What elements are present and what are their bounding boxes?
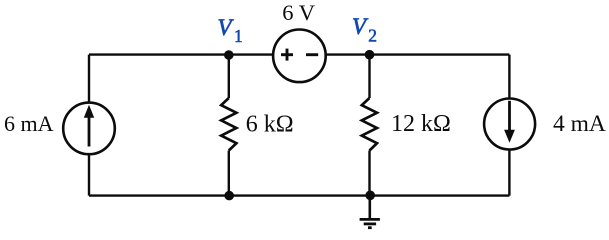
svg-text:2: 2	[368, 25, 377, 45]
label: 6 mA value	[4, 111, 54, 136]
current source 6 mA (left, arrow up)	[63, 103, 115, 155]
wire: 6 kOhm branch bottom stub	[228, 151, 230, 196]
wire: bottom horizontal ground rail	[89, 194, 509, 196]
label: 12 kOhm value	[391, 111, 451, 137]
wire: 6 kOhm branch top stub	[228, 55, 230, 98]
svg-text:4 mA: 4 mA	[553, 111, 606, 137]
ground symbol	[360, 196, 380, 228]
voltage source 6 V (top, + left / - right)	[273, 30, 326, 83]
svg-text:6 kΩ: 6 kΩ	[246, 111, 294, 137]
wire: 12 kOhm branch bottom stub	[368, 151, 370, 196]
node label V1 (blue)	[218, 15, 243, 46]
node junction dot V1 (top)	[224, 50, 234, 60]
label: 6 kOhm value	[246, 111, 294, 137]
label: 6 V value	[282, 0, 315, 25]
svg-text:6 mA: 6 mA	[4, 111, 54, 136]
wire: top horizontal net V1-V2 rail	[89, 53, 509, 55]
wire: left vertical branch	[88, 55, 90, 196]
resistor 6 kOhm (zigzag)	[221, 98, 236, 151]
resistor 12 kOhm (zigzag)	[362, 98, 377, 151]
svg-text:12 kΩ: 12 kΩ	[391, 111, 451, 137]
svg-text:1: 1	[234, 26, 243, 46]
svg-text:6 V: 6 V	[282, 0, 315, 25]
svg-text:V: V	[218, 15, 235, 40]
current source 4 mA (right, arrow down)	[484, 99, 535, 150]
svg-text:V: V	[352, 14, 369, 39]
node label V2 (blue)	[352, 14, 377, 45]
wire: right vertical branch	[508, 55, 510, 196]
junction dot bottom right (12 kOhm / ground rail)	[365, 191, 375, 201]
junction dot bottom left (6 kOhm / ground rail)	[224, 191, 234, 201]
node junction dot V2 (top)	[365, 50, 375, 60]
wire: 12 kOhm branch top stub	[368, 55, 370, 98]
label: 4 mA value	[553, 111, 606, 137]
